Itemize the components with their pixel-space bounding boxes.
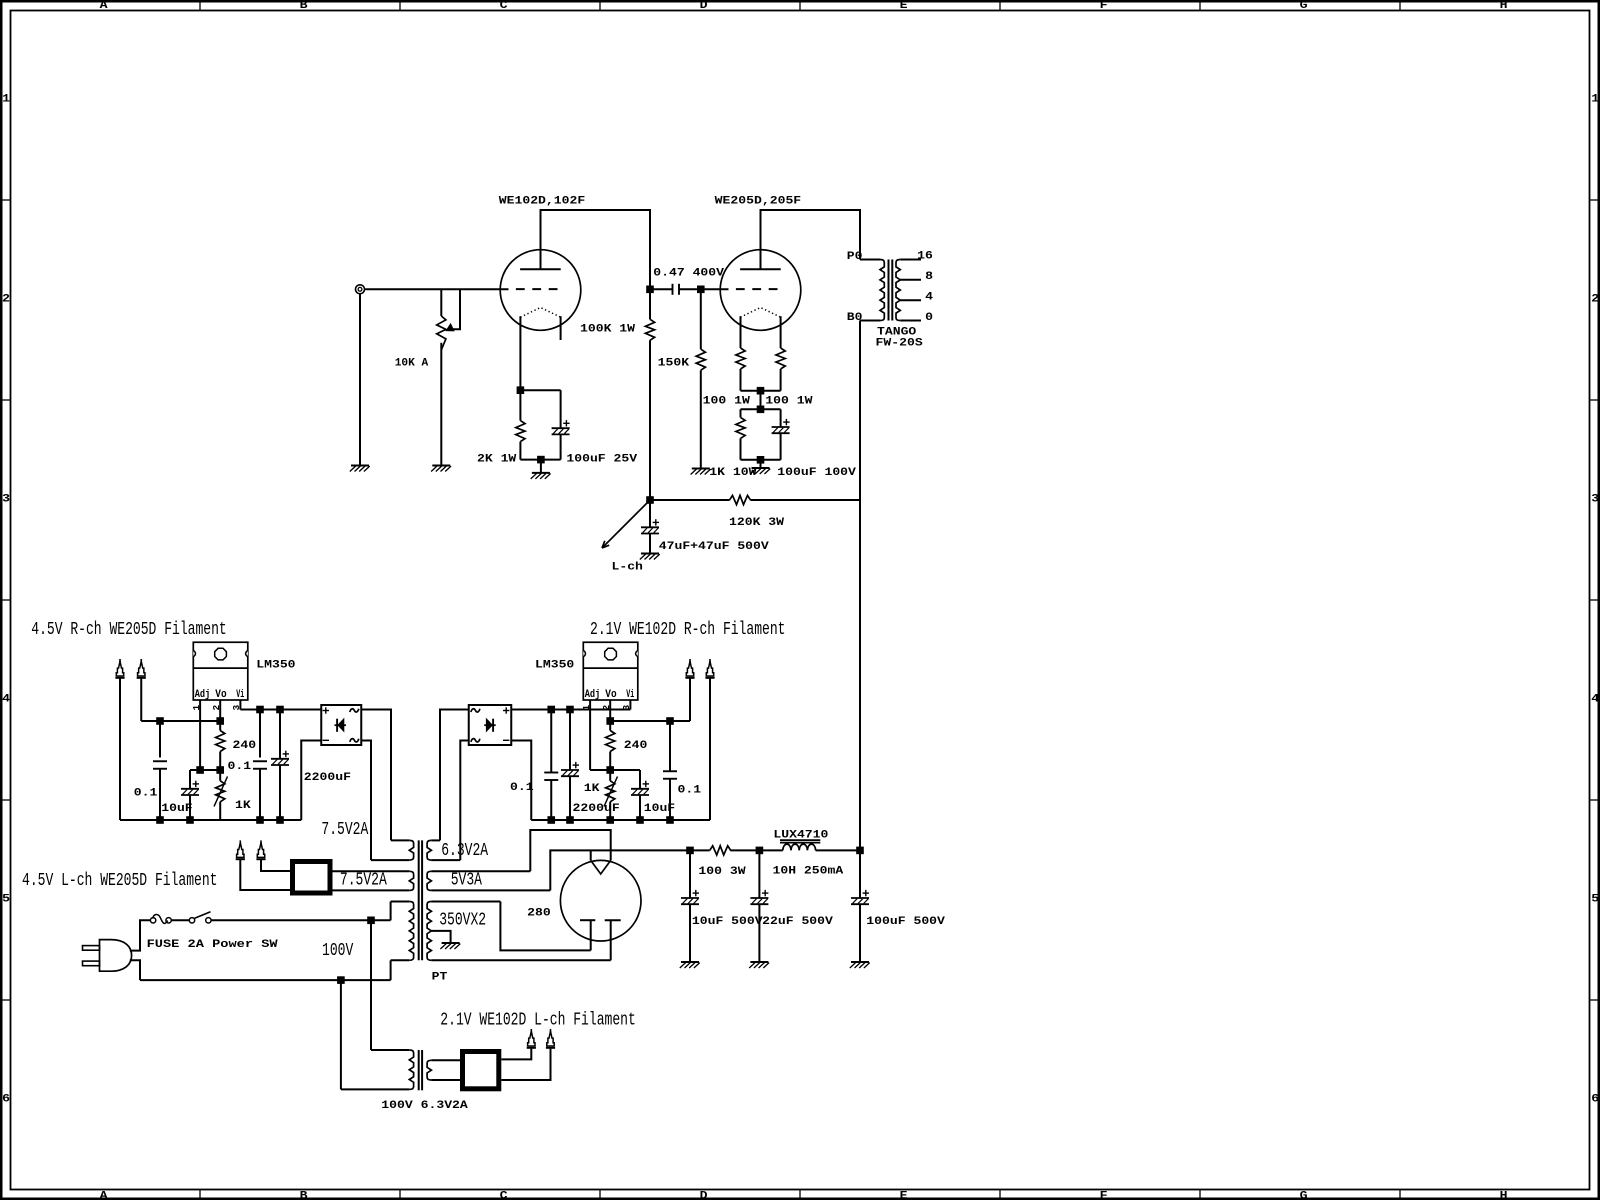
svg-text:Vo: Vo — [605, 689, 616, 701]
arrow to L-ch — [602, 500, 650, 548]
svg-text:10uF: 10uF — [644, 803, 676, 815]
node 240-1K junction right — [607, 767, 614, 774]
node AC bottom tap — [338, 977, 345, 984]
svg-text:0.1: 0.1 — [678, 785, 702, 797]
transformer PT winding 7.5V2A mid-left — [333, 870, 410, 872]
node rail taps — [157, 817, 164, 824]
wire 350V center tap — [431, 931, 450, 943]
transformer T2 secondary 6.3V2A — [431, 1059, 460, 1061]
resistor R8 240 — [219, 721, 221, 731]
rectifier V3 280 — [560, 860, 641, 941]
svg-text:1K 10W: 1K 10W — [709, 467, 756, 479]
svg-text:4: 4 — [2, 693, 10, 705]
wire Vi input run — [240, 709, 321, 711]
svg-text:P0: P0 — [847, 251, 863, 263]
svg-text:3: 3 — [1591, 493, 1599, 505]
svg-text:2: 2 — [1591, 293, 1599, 305]
transformer PT winding 5V3A — [431, 870, 530, 872]
secondary tap 16 ohm — [900, 259, 921, 261]
svg-text:5: 5 — [1591, 893, 1599, 905]
svg-text:Vi: Vi — [236, 689, 244, 701]
node Vo junction right — [607, 718, 614, 725]
switch SW power — [189, 918, 194, 923]
wire DB1 to 7.5V winding top — [332, 870, 334, 872]
ground at potentiometer — [431, 466, 451, 472]
svg-text:4: 4 — [925, 291, 933, 303]
svg-text:2K 1W: 2K 1W — [477, 454, 516, 466]
node Vo wire cap tap — [157, 718, 164, 725]
arrow output gnd 2.1V L-ch — [546, 1029, 555, 1048]
node bias bottom — [757, 457, 764, 464]
svg-text:22uF 500V: 22uF 500V — [762, 916, 833, 928]
triode V1 WE102D — [500, 250, 581, 331]
wire Vo output run — [141, 720, 220, 722]
resistor R2 100K 1W — [649, 289, 651, 319]
transformer PT winding 350VX2 — [431, 901, 500, 903]
svg-text:2200uF: 2200uF — [573, 803, 620, 815]
svg-text:100uF 100V: 100uF 100V — [777, 467, 856, 479]
wire B0 rail down to choke node — [859, 321, 861, 851]
capacitor C14 22uF 500V — [758, 850, 760, 898]
svg-text:280: 280 — [527, 907, 551, 919]
svg-text:E: E — [900, 0, 908, 12]
wire arrow6 lead — [261, 860, 290, 871]
svg-text:240: 240 — [233, 740, 257, 752]
wire bridge AC bottom to transformer — [361, 741, 371, 861]
wire cathode network top — [520, 389, 560, 391]
wire bridge2 AC bottom to transformer — [460, 741, 468, 861]
capacitor C2 0.47 400V coupling — [650, 288, 673, 290]
transformer PT winding 7.5V2A top-left — [391, 839, 409, 841]
node V1 cathode junction — [517, 387, 524, 394]
wire plug bottom lead — [130, 960, 140, 980]
capacitor C1 100uF 25V — [552, 420, 570, 434]
node Vo cap tap right — [667, 718, 674, 725]
regulator U2 LM350 package — [583, 642, 638, 700]
arrow output plus 2.1V L-ch — [527, 1029, 536, 1048]
wire V1 plate to 100K node — [541, 210, 651, 289]
transformer T2 core — [418, 1050, 420, 1090]
svg-text:LM350: LM350 — [256, 660, 295, 672]
bridge rectifier D1 — [321, 705, 361, 745]
arrow output gnd L-ch 4.5V — [236, 840, 245, 859]
svg-text:47uF+47uF 500V: 47uF+47uF 500V — [659, 541, 769, 553]
svg-text:Vi: Vi — [626, 689, 634, 701]
potentiometer VR1 10K A — [440, 289, 442, 316]
wire V2 filament left leg — [740, 316, 742, 348]
svg-text:D: D — [700, 0, 708, 12]
svg-text:B: B — [300, 0, 308, 12]
node V2 bias network top — [757, 406, 764, 413]
V3 filament vee — [591, 860, 611, 874]
svg-text:H: H — [1500, 1190, 1508, 1200]
choke L1 LUX4710 10H 250mA — [783, 844, 816, 850]
svg-text:4: 4 — [1591, 693, 1599, 705]
svg-text:A: A — [100, 1190, 108, 1200]
transformer PT core — [418, 840, 420, 960]
svg-text:FW-20S: FW-20S — [876, 337, 923, 349]
ground at C14 — [749, 962, 769, 968]
node B+ cap 22uF tap — [756, 847, 763, 854]
svg-text:1K: 1K — [235, 800, 251, 812]
node cathode bottom — [538, 456, 545, 463]
svg-text:6: 6 — [1591, 1093, 1599, 1105]
wire 5V top to filament right — [530, 830, 610, 871]
wire primary top to switch line — [390, 902, 392, 921]
capacitor C9 0.1 — [550, 710, 552, 773]
resistor R5 100 1W — [776, 348, 785, 369]
transformer PT winding 6.3V2A — [431, 839, 440, 841]
svg-text:100 1W: 100 1W — [703, 396, 750, 408]
transformer T1 core — [888, 260, 890, 321]
capacitor C13 10uF 500V — [689, 850, 691, 898]
resistor R10 240 — [609, 721, 611, 731]
svg-text:6: 6 — [2, 1093, 10, 1105]
svg-text:10uF: 10uF — [161, 803, 193, 815]
ground at input jack — [350, 466, 370, 472]
wire arrow3 to Vo wire — [689, 679, 691, 722]
wire 5V bottom to B+ line — [550, 850, 709, 890]
capacitor C10 2200uF — [569, 710, 571, 771]
ground at C13 — [680, 962, 700, 968]
ground at V1 cathode — [531, 473, 551, 479]
wire arrow4 to rail — [709, 679, 711, 821]
svg-text:LM350: LM350 — [535, 660, 574, 672]
wire plug top lead — [130, 920, 151, 950]
ground at V2 cathode — [750, 468, 770, 474]
wire primary bottom to AC rail — [390, 960, 392, 980]
svg-text:G: G — [1300, 0, 1308, 12]
svg-text:120K 3W: 120K 3W — [729, 517, 784, 529]
svg-text:L-ch: L-ch — [612, 561, 644, 573]
svg-text:2.1V WE102D R-ch Filament: 2.1V WE102D R-ch Filament — [590, 620, 786, 640]
wire DB2 output bottom — [501, 1049, 550, 1080]
wire Adj run — [190, 769, 220, 771]
arrow output gnd 2.1V R-ch — [705, 659, 714, 678]
wire P0 to primary — [860, 259, 880, 261]
V3 plate left — [580, 919, 595, 921]
node B+ decoupling junction — [647, 497, 654, 504]
bridge rectifier D2 — [469, 705, 512, 745]
svg-text:Adj: Adj — [195, 689, 211, 701]
node switch line tap — [368, 917, 375, 924]
svg-text:C: C — [500, 0, 508, 12]
node V1 plate junction — [647, 286, 654, 293]
svg-text:PT: PT — [432, 971, 448, 983]
wire bias network bottom — [741, 459, 781, 461]
svg-text:16: 16 — [917, 251, 933, 263]
svg-text:1K: 1K — [584, 783, 600, 795]
wire Adj run right — [590, 769, 640, 771]
svg-text:100K 1W: 100K 1W — [580, 324, 635, 336]
ground at C15 — [850, 962, 870, 968]
ground at 150K — [691, 469, 711, 475]
svg-text:WE205D,205F: WE205D,205F — [715, 196, 802, 208]
regulator U1 LM350 package — [193, 642, 248, 700]
wire bias network top — [741, 408, 781, 410]
wire primary riser 2 — [340, 980, 342, 1089]
svg-text:F: F — [1100, 0, 1108, 12]
svg-text:0.1: 0.1 — [228, 761, 252, 773]
node B0 choke junction — [857, 847, 864, 854]
svg-text:100uF 25V: 100uF 25V — [566, 454, 637, 466]
AC plug — [83, 946, 100, 951]
svg-text:100 3W: 100 3W — [698, 866, 745, 878]
svg-text:Adj: Adj — [585, 689, 601, 701]
wire bridge2 AC top to transformer — [440, 710, 469, 841]
arrow output plus R-ch — [137, 659, 146, 678]
svg-text:100V 6.3V2A: 100V 6.3V2A — [381, 1100, 468, 1112]
svg-text:350VX2: 350VX2 — [439, 910, 486, 930]
svg-text:7.5V2A: 7.5V2A — [321, 820, 368, 840]
rheostat R11 1K — [609, 770, 611, 781]
input jack J1 — [356, 285, 365, 294]
wire V1 filament right stub — [560, 316, 562, 340]
wire B0 to primary — [860, 320, 880, 322]
resistor R1 2K 1W — [519, 390, 521, 420]
wire grid node to V2 — [701, 288, 729, 290]
wire jack ground lead — [359, 294, 361, 466]
U1 pin Vi lead — [239, 700, 241, 710]
svg-text:2: 2 — [2, 293, 10, 305]
capacitor C3 100uF 100V — [780, 409, 782, 427]
svg-text:2200uF: 2200uF — [304, 772, 351, 784]
svg-text:100 1W: 100 1W — [765, 396, 812, 408]
secondary tap 4 ohm — [900, 299, 921, 301]
svg-text:D: D — [700, 1190, 708, 1200]
wire arrow5 lead — [240, 860, 290, 890]
capacitor C15 100uF 500V — [859, 850, 861, 898]
resistor R4 100 1W — [736, 348, 745, 369]
node B+ cap 10uF tap — [687, 847, 694, 854]
wire V1 filament left leg — [519, 316, 521, 390]
rectifier box DB2 — [463, 1052, 499, 1089]
capacitor C4 47uF+47uF 500V — [649, 500, 651, 527]
svg-text:1: 1 — [1591, 93, 1599, 105]
svg-text:100V: 100V — [322, 941, 353, 961]
capacitor C6 10uF — [189, 770, 191, 789]
pot wiper arrow — [452, 289, 461, 329]
node rail taps right — [548, 817, 555, 824]
arrow output plus 2.1V R-ch — [685, 659, 694, 678]
transformer T2 primary 100V — [371, 1049, 409, 1051]
transformer T1 secondary winding — [896, 260, 900, 321]
svg-text:240: 240 — [624, 740, 648, 752]
V3 plate right — [605, 919, 621, 921]
arrow output gnd R-ch — [115, 659, 124, 678]
wire choke to B0 node — [816, 849, 860, 851]
wire DB2 output top — [501, 1049, 531, 1060]
wire rail to bridge minus right — [511, 741, 531, 821]
wire Vi input run right supply — [511, 709, 630, 711]
wire filament left tap — [590, 850, 592, 860]
svg-text:3: 3 — [2, 493, 10, 505]
capacitor C7 0.1 — [259, 710, 261, 758]
capacitor C11 0.1 — [669, 721, 671, 771]
rheostat R9 1K — [219, 770, 221, 781]
svg-text:4.5V L-ch WE205D Filament: 4.5V L-ch WE205D Filament — [22, 871, 217, 891]
node Vi cap tap 2 — [277, 706, 284, 713]
wire 350V top to left plate — [500, 902, 590, 951]
secondary tap 8 ohm — [900, 279, 921, 281]
svg-text:A: A — [100, 0, 108, 12]
transformer T1 primary winding — [880, 260, 884, 321]
svg-text:5: 5 — [2, 893, 10, 905]
capacitor C12 10uF — [639, 770, 641, 789]
resistor R3 150K — [700, 289, 702, 349]
resistor R6 1K 10W — [740, 409, 742, 417]
wire jack to grid node — [365, 288, 509, 290]
node V2 cathode join — [757, 387, 764, 394]
svg-text:4.5V R-ch WE205D Filament: 4.5V R-ch WE205D Filament — [31, 620, 226, 640]
svg-text:0.1: 0.1 — [134, 788, 158, 800]
secondary tap 0 ohm — [900, 320, 921, 322]
svg-text:8: 8 — [925, 271, 933, 283]
wire rail to bridge minus — [301, 741, 321, 821]
wire AC bottom rail — [140, 979, 391, 981]
node Vi taps — [548, 706, 555, 713]
svg-text:10K A: 10K A — [395, 357, 429, 369]
wire cathode network bottom — [520, 459, 560, 461]
svg-text:FUSE 2A Power SW: FUSE 2A Power SW — [147, 939, 278, 951]
resistor R12 100 3W — [710, 846, 731, 855]
svg-text:0.1: 0.1 — [510, 782, 534, 794]
resistor R7 120K 3W — [650, 499, 730, 501]
triode V2 WE205D — [720, 250, 801, 331]
ground at 47uF cap — [640, 554, 660, 560]
svg-text:F: F — [1100, 1190, 1108, 1200]
svg-text:LUX4710: LUX4710 — [773, 830, 828, 842]
capacitor C8 2200uF — [279, 710, 281, 759]
svg-text:Vo: Vo — [215, 689, 226, 701]
svg-text:H: H — [1500, 0, 1508, 12]
svg-text:WE102D,102F: WE102D,102F — [499, 196, 586, 208]
svg-text:C: C — [500, 1190, 508, 1200]
svg-text:150K: 150K — [658, 357, 690, 369]
svg-text:10H 250mA: 10H 250mA — [773, 866, 844, 878]
svg-text:0.47 400V: 0.47 400V — [653, 268, 724, 280]
wire switch to primary — [211, 919, 391, 921]
svg-text:2.1V WE102D L-ch Filament: 2.1V WE102D L-ch Filament — [440, 1011, 636, 1031]
svg-text:1: 1 — [2, 93, 10, 105]
fuse F1 2A — [150, 918, 155, 923]
capacitor C5 0.1 — [159, 721, 161, 758]
svg-text:5V3A: 5V3A — [451, 870, 482, 890]
svg-text:B: B — [300, 1190, 308, 1200]
U2 pin Vi lead — [629, 700, 631, 710]
svg-text:E: E — [900, 1190, 908, 1200]
wire primary riser 1 — [370, 920, 372, 1050]
node Vi cap tap 1 — [257, 706, 264, 713]
U1 pin Adj lead — [199, 700, 201, 770]
U2 pin Adj lead — [589, 700, 591, 770]
svg-text:0: 0 — [925, 312, 933, 324]
svg-text:100uF 500V: 100uF 500V — [866, 916, 945, 928]
wire supply ground rail right — [531, 819, 710, 821]
svg-text:10uF 500V: 10uF 500V — [692, 916, 763, 928]
wire supply ground rail — [120, 819, 301, 821]
node Adj junction — [197, 767, 204, 774]
node V2 grid junction — [698, 286, 705, 293]
wire arrow1 to rail — [119, 679, 121, 821]
U2 pin Vo lead — [609, 700, 611, 721]
svg-text:7.5V2A: 7.5V2A — [340, 870, 387, 890]
node 240-1K junction — [217, 767, 224, 774]
svg-text:6.3V2A: 6.3V2A — [441, 841, 488, 861]
rectifier box DB1 — [293, 862, 331, 894]
wire V2 plate to P0 — [761, 210, 861, 260]
node Vo pin junction — [217, 718, 224, 725]
wire V2 filament right leg — [780, 316, 782, 348]
wire bridge AC top to transformer — [361, 710, 391, 841]
arrow output plus L-ch 4.5V — [256, 840, 265, 859]
wire filament legs join — [741, 390, 781, 392]
wire Vo output run right — [610, 720, 690, 722]
wire arrow2 to Vo wire — [140, 679, 142, 722]
wire fuse to switch — [171, 919, 189, 921]
svg-text:G: G — [1300, 1190, 1308, 1200]
ground at 350V center tap — [440, 943, 460, 949]
transformer PT winding 100V primary — [391, 901, 410, 903]
U1 pin Vo lead — [219, 700, 221, 721]
